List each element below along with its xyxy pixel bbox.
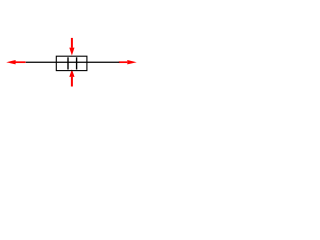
force arrow right (red, pointing right)	[119, 60, 137, 64]
electrode plate left	[67, 57, 69, 69]
force arrow bottom (red, pointing up)	[69, 69, 74, 86]
electrode plate right	[76, 57, 78, 69]
force arrow top (red, pointing down)	[69, 38, 74, 56]
force arrow left (red, pointing left)	[6, 60, 25, 64]
crystal case rectangle X1	[56, 56, 87, 70]
wire (left lead to right lead, passing through crystal)	[26, 61, 120, 63]
